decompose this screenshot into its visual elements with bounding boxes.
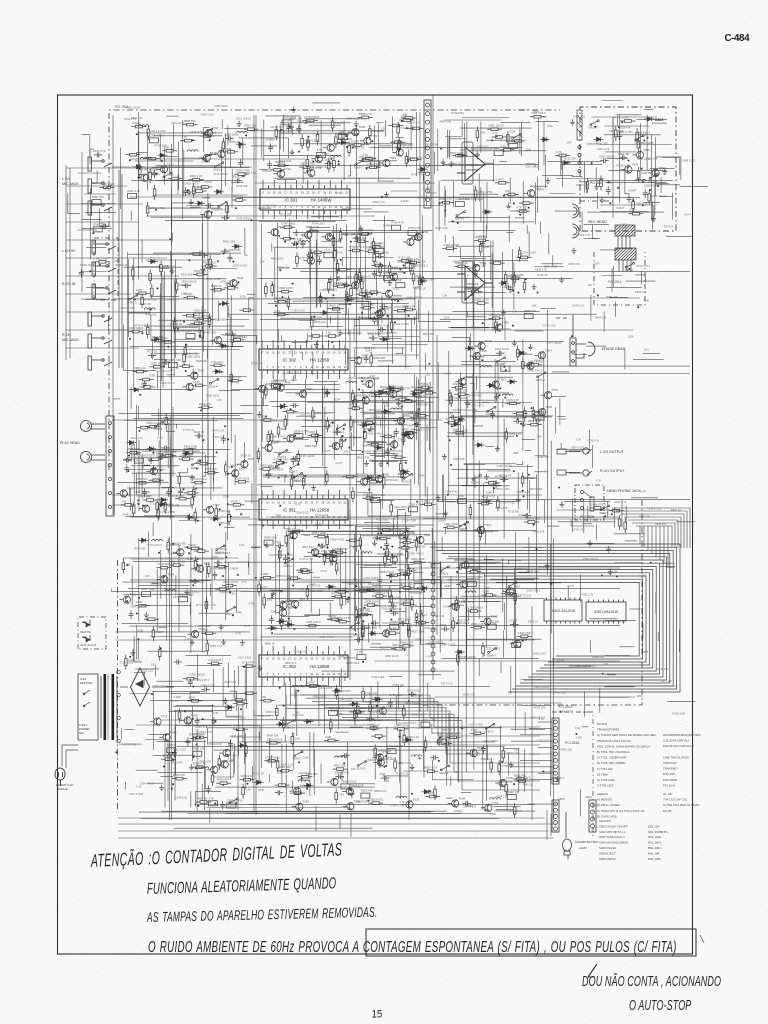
node junction	[519, 214, 521, 216]
transistor Q282	[226, 279, 237, 287]
capacitor C336	[148, 353, 157, 358]
svg-text:3.3K: 3.3K	[480, 131, 486, 135]
transistor Q322	[286, 531, 297, 539]
node junction	[247, 783, 249, 785]
transistor Q329	[474, 526, 485, 534]
switch S30	[226, 606, 235, 612]
svg-text:100P: 100P	[533, 110, 539, 114]
component block	[387, 749, 396, 754]
svg-text:R466 560: R466 560	[538, 455, 550, 459]
resistor R357	[350, 285, 353, 300]
component block	[512, 642, 521, 647]
wire	[322, 387, 324, 466]
node junction	[491, 139, 493, 141]
resistor R685	[266, 742, 281, 745]
wire	[462, 361, 516, 363]
wire	[172, 218, 200, 221]
wire	[571, 498, 573, 532]
svg-text:R392 10K: R392 10K	[292, 713, 304, 717]
svg-text:R868 2.2K: R868 2.2K	[576, 183, 589, 187]
node junction	[481, 359, 483, 361]
wire	[355, 365, 411, 367]
svg-text:C369 47/6.3: C369 47/6.3	[160, 381, 175, 385]
wire	[158, 440, 160, 519]
svg-text:C359 0.01: C359 0.01	[476, 145, 489, 149]
resistor R462	[366, 480, 381, 483]
svg-text:AL. CD: AL. CD	[663, 792, 672, 796]
wire	[66, 221, 139, 223]
wire	[455, 245, 493, 247]
resistor R532	[193, 486, 196, 501]
svg-text:T815: T815	[534, 359, 541, 363]
transistor Q321	[386, 556, 397, 564]
wire	[613, 507, 615, 527]
resistor R373	[274, 313, 289, 316]
capacitor C355	[473, 270, 478, 279]
diode D613	[644, 117, 654, 121]
resistor R370	[280, 226, 295, 229]
node junction	[260, 579, 262, 581]
resistor R551	[194, 508, 197, 523]
svg-text:1/50: 1/50	[644, 347, 650, 351]
svg-text:4.7K: 4.7K	[325, 449, 331, 453]
wire	[124, 266, 182, 268]
inductor L12	[391, 408, 402, 410]
wire	[225, 812, 461, 814]
wire	[130, 449, 181, 451]
svg-text:R768 4.7K: R768 4.7K	[392, 221, 405, 225]
IC IC 352 HA 12058	[259, 646, 348, 686]
resistor R353	[408, 127, 423, 130]
svg-text:R702 560: R702 560	[158, 562, 170, 566]
resistor R489	[302, 474, 305, 489]
node junction	[139, 394, 141, 396]
resistor R306	[200, 135, 215, 138]
node junction	[260, 587, 262, 589]
wire	[452, 469, 511, 471]
wire	[274, 248, 276, 302]
inductor L30	[411, 755, 422, 757]
node junction	[628, 268, 630, 270]
svg-text:PCI 280A: PCI 280A	[558, 705, 573, 709]
svg-text:T369: T369	[294, 431, 301, 435]
node junction	[338, 160, 340, 162]
capacitor C399	[510, 622, 518, 627]
svg-text:R512 4.7K: R512 4.7K	[472, 403, 485, 407]
capacitor C362	[195, 433, 204, 438]
wire	[280, 335, 282, 342]
svg-text:10K: 10K	[505, 189, 510, 193]
ground	[372, 540, 377, 546]
resistor R362	[355, 271, 358, 286]
resistor R423	[151, 339, 166, 342]
transistor Q301	[488, 381, 499, 389]
svg-text:R827 4.7K: R827 4.7K	[424, 766, 437, 770]
svg-text:MSL QM 1: MSL QM 1	[648, 846, 662, 850]
wire	[502, 558, 504, 612]
resistor R458	[191, 384, 206, 387]
wire	[269, 400, 359, 402]
diode D638	[486, 383, 496, 387]
wire	[159, 294, 161, 367]
resistor R705	[403, 731, 406, 746]
svg-text:T737: T737	[193, 380, 200, 384]
wire	[310, 558, 312, 613]
wire	[137, 132, 222, 134]
wire	[379, 563, 381, 629]
node junction	[284, 241, 286, 243]
wire	[483, 193, 485, 268]
wire	[465, 278, 467, 772]
capacitor C305	[225, 136, 234, 141]
resistor R602	[355, 606, 358, 621]
wire	[545, 155, 547, 188]
ground	[340, 135, 345, 141]
node junction	[528, 364, 530, 366]
svg-text:R657 1K: R657 1K	[411, 419, 422, 423]
wire	[447, 130, 449, 159]
node junction	[346, 146, 348, 148]
svg-text:C725 0.01: C725 0.01	[158, 369, 171, 373]
wire	[441, 657, 538, 659]
resistor R419	[615, 126, 618, 141]
svg-text:C434 0.01: C434 0.01	[220, 279, 233, 283]
transistor Q350	[207, 766, 218, 774]
switch S42	[357, 761, 366, 767]
wire	[480, 187, 482, 222]
wire	[363, 598, 413, 600]
svg-text:1/50: 1/50	[343, 450, 349, 454]
svg-text:R316 47K: R316 47K	[236, 184, 248, 188]
transistor Q325	[193, 565, 204, 573]
svg-text:R418 2.2K: R418 2.2K	[302, 545, 315, 549]
resistor R389	[339, 228, 342, 243]
wire	[537, 376, 539, 501]
ground	[480, 241, 485, 247]
resistor R358	[329, 308, 344, 311]
node junction	[346, 234, 348, 236]
capacitor C371	[386, 573, 395, 578]
node junction	[245, 134, 247, 136]
wire	[172, 407, 174, 477]
transistor Q307	[534, 351, 545, 359]
connector pad	[431, 588, 435, 592]
resistor R627	[362, 688, 365, 703]
resistor R697	[513, 778, 528, 781]
inductor L29	[298, 780, 309, 782]
resistor R500	[523, 279, 526, 294]
resistor R556	[386, 574, 401, 577]
wire	[485, 558, 494, 560]
svg-text:C766 0.022: C766 0.022	[136, 494, 151, 498]
transistor Q332	[458, 561, 469, 569]
node junction	[514, 646, 516, 648]
resistor R352	[390, 141, 405, 144]
wire	[550, 441, 552, 634]
ground	[387, 280, 392, 286]
node junction	[642, 181, 644, 183]
svg-text:T296: T296	[643, 148, 650, 152]
node junction	[232, 261, 234, 263]
wire	[368, 301, 378, 319]
resistor R699	[245, 742, 248, 757]
resistor R644	[399, 587, 414, 590]
wire	[313, 733, 315, 768]
svg-text:R719 10K: R719 10K	[390, 267, 402, 271]
wire	[141, 454, 143, 498]
wire	[145, 349, 240, 351]
capacitor C391	[354, 637, 363, 642]
wire	[171, 188, 173, 820]
capacitor C372	[276, 543, 285, 548]
svg-text:R753 10K: R753 10K	[155, 144, 168, 148]
capacitor C405	[444, 741, 453, 746]
node junction	[203, 158, 205, 160]
svg-text:C349 100/10: C349 100/10	[417, 195, 432, 199]
svg-text:R373 2.2K: R373 2.2K	[213, 435, 226, 439]
svg-text:T486: T486	[502, 321, 509, 325]
svg-text:4.7K: 4.7K	[492, 132, 498, 136]
wire	[432, 724, 461, 733]
connector pad	[431, 628, 435, 632]
wire	[364, 521, 391, 523]
wire	[635, 275, 645, 283]
transistor Q351	[139, 505, 150, 513]
wire	[270, 516, 620, 518]
wire	[178, 142, 180, 190]
resistor R415	[648, 190, 651, 205]
svg-text:C538 10/16: C538 10/16	[279, 286, 293, 290]
wire	[141, 604, 191, 606]
resistor R678	[291, 732, 294, 747]
wire	[353, 400, 390, 402]
wire	[256, 336, 258, 344]
svg-text:0.047: 0.047	[640, 489, 647, 493]
wire	[354, 552, 356, 632]
svg-text:100P: 100P	[334, 397, 340, 401]
wire	[172, 193, 197, 208]
capacitor C375	[389, 604, 398, 609]
node junction	[439, 737, 441, 739]
wire	[366, 453, 395, 455]
svg-text:220K: 220K	[444, 584, 450, 588]
wire	[384, 405, 386, 458]
svg-text:R451 4.7K: R451 4.7K	[287, 371, 300, 375]
resistor R525	[505, 428, 508, 443]
component block	[149, 138, 158, 143]
wire	[416, 377, 418, 441]
resistor R677	[434, 785, 437, 800]
inductor L14	[364, 424, 375, 426]
input jack assembly	[88, 157, 112, 215]
transistor Q305	[469, 352, 480, 360]
svg-text:R621 4.7K: R621 4.7K	[419, 428, 432, 432]
resistor R312	[180, 139, 195, 142]
svg-text:0.0047: 0.0047	[284, 619, 293, 623]
wire	[472, 411, 542, 413]
svg-text:R799 100K: R799 100K	[451, 111, 464, 115]
resistor R332	[270, 169, 285, 172]
resistor R583	[399, 603, 414, 606]
node junction	[195, 372, 197, 374]
inductor L28	[490, 798, 501, 800]
wire	[452, 237, 454, 252]
wire	[274, 177, 385, 179]
svg-text:T638: T638	[458, 797, 465, 801]
resistor R633	[353, 707, 356, 722]
wire	[524, 749, 526, 792]
resistor R493	[308, 434, 323, 437]
wire	[207, 193, 209, 466]
svg-text:R CH IN: R CH IN	[62, 282, 76, 286]
svg-text:0.047: 0.047	[336, 461, 343, 465]
resistor R304	[222, 138, 225, 153]
wire	[536, 419, 542, 424]
wire	[259, 220, 336, 222]
wire	[526, 164, 535, 167]
switch S31	[216, 545, 225, 551]
resistor R727	[402, 432, 417, 435]
svg-text:C479 0.022: C479 0.022	[394, 141, 408, 145]
wire	[418, 379, 420, 485]
svg-text:R450 100K: R450 100K	[672, 711, 685, 715]
svg-text:T545: T545	[247, 457, 254, 461]
capacitor C393	[377, 576, 382, 585]
svg-text:R471 100K: R471 100K	[497, 487, 510, 491]
node junction	[297, 690, 299, 692]
wire	[464, 402, 533, 404]
capacitor C340	[266, 471, 271, 480]
resistor R559	[314, 535, 329, 538]
svg-text:TRANSISTORES: TRANSISTORES	[597, 728, 620, 732]
resistor R326	[316, 131, 319, 146]
wire	[456, 573, 515, 575]
wire	[621, 500, 623, 527]
wire	[370, 686, 372, 720]
wire	[178, 545, 180, 631]
resistor R666	[501, 592, 516, 595]
node junction	[477, 443, 479, 445]
transistor Q349	[290, 787, 301, 795]
wire	[255, 182, 435, 184]
node junction	[465, 527, 467, 529]
diode D616	[213, 369, 223, 373]
wire	[509, 560, 522, 564]
svg-text:10K: 10K	[543, 115, 548, 119]
resistor R725	[352, 487, 355, 502]
svg-text:R823 100K: R823 100K	[184, 445, 198, 449]
wire	[163, 271, 165, 368]
svg-text:0.0047: 0.0047	[557, 659, 565, 663]
wire	[461, 595, 521, 597]
svg-text:0.0047: 0.0047	[174, 695, 182, 699]
svg-text:R475 2.2K: R475 2.2K	[212, 429, 225, 433]
resistor R562	[362, 626, 365, 641]
node junction	[298, 761, 300, 763]
node junction	[160, 647, 162, 649]
capacitor C382	[403, 571, 408, 580]
resistor R643	[386, 545, 389, 560]
resistor R508	[504, 271, 507, 286]
wire	[356, 302, 370, 321]
node junction	[360, 711, 362, 713]
resistor R384	[336, 268, 351, 271]
svg-text:R369 47K: R369 47K	[199, 402, 211, 406]
svg-text:0.0047: 0.0047	[230, 499, 239, 503]
wire	[518, 748, 520, 792]
node junction	[335, 689, 337, 691]
ground	[443, 510, 448, 516]
wire	[423, 496, 446, 519]
resistor R569	[415, 536, 418, 551]
wire	[353, 589, 388, 591]
resistor R323	[232, 199, 247, 202]
resistor R383	[336, 259, 339, 274]
wire	[82, 135, 90, 156]
svg-text:C581 100/10: C581 100/10	[211, 566, 227, 570]
node junction	[275, 305, 277, 307]
wire	[196, 729, 198, 811]
node junction	[381, 480, 383, 482]
resistor R654	[618, 515, 621, 530]
resistor R571	[289, 530, 304, 533]
svg-text:3.3K: 3.3K	[575, 726, 581, 730]
switch S14	[210, 379, 219, 385]
node junction	[350, 241, 352, 243]
svg-text:C582 100/10: C582 100/10	[227, 799, 243, 803]
svg-text:R325 100K: R325 100K	[80, 263, 94, 267]
resistor R375	[287, 295, 290, 310]
wire	[310, 332, 312, 340]
svg-text:T844: T844	[423, 533, 430, 537]
wire	[445, 121, 462, 137]
resistor R722	[364, 428, 367, 443]
wire	[478, 461, 480, 531]
wire	[429, 382, 431, 453]
svg-text:R360 2.2K: R360 2.2K	[190, 174, 203, 178]
wire	[354, 319, 359, 326]
component block	[375, 248, 384, 253]
node junction	[416, 233, 418, 235]
capacitor C332	[617, 131, 622, 140]
resistor R497	[370, 352, 373, 367]
svg-text:0.047: 0.047	[479, 234, 486, 238]
diode D623	[386, 386, 396, 390]
wire	[66, 275, 180, 277]
ground	[508, 287, 513, 293]
node junction	[177, 328, 179, 330]
node junction	[419, 757, 421, 759]
capacitor C409	[430, 755, 439, 760]
wire	[486, 555, 488, 648]
resistor R405	[500, 149, 515, 152]
wire	[175, 362, 177, 369]
resistor R712	[586, 178, 589, 193]
wire	[503, 419, 505, 539]
svg-text:R777 1K: R777 1K	[147, 349, 158, 353]
wire	[360, 411, 461, 413]
ground	[528, 344, 533, 350]
svg-text:MIC JACK: MIC JACK	[62, 338, 79, 342]
node junction	[368, 430, 370, 432]
inductor L19	[281, 601, 292, 603]
wire	[321, 354, 323, 454]
diode D640	[517, 351, 527, 355]
wire	[466, 558, 468, 661]
resistor R374	[319, 292, 322, 307]
wire	[303, 297, 358, 299]
svg-text:TRANSMO: TRANSMO	[663, 767, 678, 771]
